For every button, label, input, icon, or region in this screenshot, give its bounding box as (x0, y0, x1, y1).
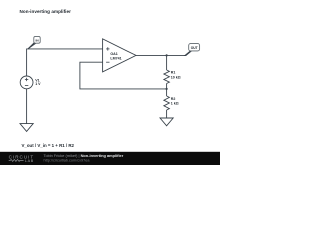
svg-text:OA1: OA1 (110, 52, 117, 56)
svg-text:Non-inverting amplifier: Non-inverting amplifier (20, 9, 72, 14)
svg-text:http://circuitlab.com/cx97ea: http://circuitlab.com/cx97ea (44, 158, 91, 162)
svg-text:Tobin Fricke (mikef) | Non-inv: Tobin Fricke (mikef) | Non-inverting amp… (44, 153, 124, 158)
svg-text:1 V: 1 V (35, 82, 41, 86)
svg-text:LAB: LAB (25, 159, 34, 163)
svg-text:R1: R1 (171, 71, 176, 75)
svg-text:V_out / V_in = 1 + R1 / R2: V_out / V_in = 1 + R1 / R2 (22, 143, 75, 148)
svg-text:LM741: LM741 (110, 56, 121, 60)
svg-text:R2: R2 (171, 97, 176, 101)
svg-text:10 kΩ: 10 kΩ (171, 76, 181, 80)
svg-text:1 kΩ: 1 kΩ (171, 102, 179, 106)
svg-text:OUT: OUT (191, 46, 198, 50)
